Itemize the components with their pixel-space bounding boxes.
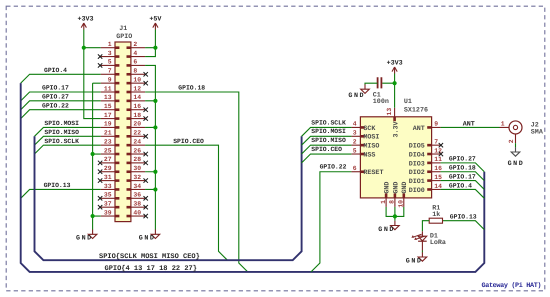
wire +3V3 to U1 pin13 and C1 (382, 74, 394, 108)
wire net GPIO.27 from U1 DIO to GPIO bus (441, 163, 485, 172)
power symbol +3V3 (U1) (392, 67, 397, 74)
svg-text:20: 20 (133, 121, 141, 128)
J1 pin 30 (131, 171, 145, 173)
svg-text:+3V3: +3V3 (387, 59, 403, 67)
svg-text:GPIO.17: GPIO.17 (449, 173, 476, 180)
U1 pin 15 DIO1 (432, 180, 441, 182)
svg-text:GPIO.4: GPIO.4 (449, 182, 472, 189)
U1 pin 3 MOSI (351, 135, 360, 137)
J1 pin 35 (101, 197, 115, 199)
wire D1 cathode to ground (421, 251, 423, 253)
svg-text:GPIO.22: GPIO.22 (320, 163, 347, 170)
svg-text:2: 2 (353, 138, 357, 145)
svg-text:2: 2 (508, 139, 515, 143)
J1 pin 17 (101, 118, 115, 120)
svg-text:Gateway (Pi HAT): Gateway (Pi HAT) (482, 282, 542, 290)
J1 pin 10 (131, 82, 145, 84)
svg-text:3: 3 (353, 130, 357, 137)
J1 pin 24 (131, 144, 145, 146)
J1 pin 11 (101, 91, 115, 93)
svg-text:SCK: SCK (363, 125, 376, 133)
svg-text:27: 27 (104, 156, 112, 163)
svg-text:10: 10 (398, 200, 405, 208)
J2 pin 1 stub (500, 126, 510, 128)
svg-text:5: 5 (353, 147, 357, 154)
wire net SPIO.CEO from J1 pin24 to SPI bus (145, 145, 227, 260)
svg-text:GND: GND (348, 92, 365, 100)
svg-text:3.3V: 3.3V (393, 121, 401, 137)
J1 pin 19 (101, 126, 115, 128)
bus GPIO (navy) (21, 83, 485, 272)
svg-text:GND: GND (406, 257, 423, 265)
wire net GPIO.27 from J1 to bus (21, 101, 101, 110)
svg-text:GPIO{4 13 17 18 22 27}: GPIO{4 13 17 18 22 27} (105, 264, 197, 273)
J1 pin 39 (101, 215, 115, 217)
svg-text:GPIO.27: GPIO.27 (449, 156, 476, 163)
no-connect X on U1 DIO5 (439, 143, 443, 147)
svg-text:14: 14 (434, 183, 442, 190)
svg-text:25: 25 (104, 147, 112, 154)
svg-text:39: 39 (104, 209, 112, 216)
J1 pin 13 (101, 100, 115, 102)
wire net SPIO.CEO from SPI bus to U1 (302, 154, 352, 163)
J2 pin 2 stub (515, 134, 517, 143)
power symbol +3V3 (left) (81, 23, 86, 30)
svg-text:U1: U1 (404, 98, 412, 106)
svg-text:SPIO.MISO: SPIO.MISO (44, 129, 79, 136)
svg-text:32: 32 (133, 174, 141, 181)
J1 pin 27 (101, 162, 115, 164)
U1 pin 11 DIO3 (432, 162, 441, 164)
ground GND (below U1) (394, 221, 396, 226)
ground GND (below J1 left) (92, 230, 94, 235)
svg-text:1k: 1k (432, 211, 440, 219)
svg-text:GND: GND (76, 235, 93, 243)
J1 pin 14 (131, 100, 145, 102)
wire net SPIO.SCLK from SPI bus to U1 (302, 127, 352, 136)
U1 pin 4 SCK (351, 126, 360, 128)
J1 pin 21 (101, 135, 115, 137)
wire U1 GND pins join (386, 207, 404, 221)
wire net SPIO.MOSI from J1 to bus (35, 127, 101, 136)
svg-text:9: 9 (434, 121, 438, 128)
svg-text:3: 3 (108, 50, 112, 57)
svg-text:NSS: NSS (363, 151, 375, 159)
svg-text:1: 1 (380, 200, 387, 204)
svg-text:13: 13 (386, 108, 393, 116)
svg-text:31: 31 (104, 174, 112, 181)
svg-text:15: 15 (434, 174, 442, 181)
svg-text:GND: GND (508, 160, 525, 168)
J1 pin 16 (131, 109, 145, 111)
svg-text:DIO3: DIO3 (409, 160, 425, 168)
svg-text:8: 8 (389, 200, 396, 204)
J1 pin 29 (101, 171, 115, 173)
svg-text:+5V: +5V (149, 15, 161, 23)
svg-text:8: 8 (133, 68, 137, 75)
junction GND right at pin14 (153, 99, 157, 103)
junction +3V3/C1 (393, 81, 397, 85)
U1 pin 8 GND (bottom) (394, 198, 396, 207)
junction GND left at pin39 (91, 214, 95, 218)
J1 pin 4 (131, 56, 145, 58)
svg-text:12: 12 (133, 85, 141, 92)
svg-text:28: 28 (133, 156, 141, 163)
svg-text:16: 16 (434, 165, 442, 172)
J1 pin 1 (101, 47, 115, 49)
J1 pin 26 (131, 153, 145, 155)
svg-text:SPIO.SCLK: SPIO.SCLK (311, 119, 346, 126)
svg-text:6: 6 (133, 59, 137, 66)
J1 pin 6 (131, 64, 145, 66)
svg-text:GPIO.13: GPIO.13 (450, 214, 477, 221)
svg-text:9: 9 (108, 76, 112, 83)
svg-text:DIO1: DIO1 (409, 178, 425, 186)
wire net GPIO.22 from J1 to bus (21, 110, 101, 119)
no-connect X on U1 DIO4 (439, 152, 443, 156)
capacitor C1 (378, 77, 382, 88)
J1 pin 37 (101, 206, 115, 208)
svg-text:SPIO{SCLK MOSI MISO CEO}: SPIO{SCLK MOSI MISO CEO} (99, 252, 200, 261)
J1 pin 34 (131, 188, 145, 190)
svg-text:MOSI: MOSI (363, 134, 379, 142)
J1 pin 2 (131, 47, 145, 49)
svg-text:DIO0: DIO0 (409, 187, 425, 195)
wire net SPIO.MISO from SPI bus to U1 (302, 145, 352, 154)
svg-text:7: 7 (434, 138, 438, 145)
J1 pin 15 (101, 109, 115, 111)
J1 pin 3 (101, 56, 115, 58)
svg-text:18: 18 (133, 112, 141, 119)
J1 pin 7 (101, 73, 115, 75)
svg-text:4: 4 (353, 121, 357, 128)
svg-text:22: 22 (133, 130, 141, 137)
J1 pin 23 (101, 144, 115, 146)
ground GND (below D1) (421, 252, 423, 257)
wire net ANT from U1 to J2 (441, 126, 500, 128)
svg-text:100n: 100n (373, 98, 389, 106)
wire net GPIO.4 from J1 to bus (21, 74, 101, 83)
U1 pin 2 MISO (351, 144, 360, 146)
junction GND left at pin25 (91, 152, 95, 156)
J1 pin 36 (131, 197, 145, 199)
svg-text:6: 6 (353, 165, 357, 172)
svg-text:DIO2: DIO2 (409, 169, 425, 177)
svg-text:GPIO: GPIO (116, 33, 132, 41)
svg-text:29: 29 (104, 165, 112, 172)
resistor R1 (429, 218, 442, 223)
J1 pin 38 (131, 206, 145, 208)
svg-text:14: 14 (133, 94, 141, 101)
wire net GPIO.4 from U1 DIO to GPIO bus (441, 189, 485, 198)
J1 pin 20 (131, 126, 145, 128)
junction GND right at pin34 (153, 187, 157, 191)
svg-text:GPIO.13: GPIO.13 (44, 182, 71, 189)
svg-text:LoRa: LoRa (430, 239, 446, 247)
svg-text:GPIO.18: GPIO.18 (449, 165, 476, 172)
svg-text:GND: GND (139, 235, 156, 243)
svg-text:GPIO.18: GPIO.18 (178, 85, 205, 92)
wire net GPIO.17 from J1 to bus (21, 92, 101, 101)
svg-text:17: 17 (104, 112, 112, 119)
connector J1 body (115, 42, 131, 222)
J1 pin 32 (131, 180, 145, 182)
wire net GPIO.13 from J1 to bus (21, 189, 101, 198)
svg-text:33: 33 (104, 183, 112, 190)
wire GND left riser (pins 9,25,39) (93, 83, 101, 229)
U1 pin 10 GND (bottom) (403, 198, 405, 207)
junction GND right at pin30 (153, 170, 157, 174)
wire J2 pin2 to ground (515, 143, 517, 147)
svg-text:SPIO.MOSI: SPIO.MOSI (44, 120, 79, 127)
wire net SPIO.SCLK from J1 to bus (35, 145, 101, 154)
svg-text:11: 11 (104, 85, 112, 92)
junction +5V at pin2 (153, 46, 157, 50)
U1 pin 9 ANT (432, 126, 441, 128)
svg-text:GPIO.4: GPIO.4 (44, 67, 67, 74)
wire net GPIO.17 from U1 DIO to GPIO bus (441, 181, 485, 190)
U1 pin 6 RESET (351, 171, 360, 173)
J1 pin 25 (101, 153, 115, 155)
svg-text:23: 23 (104, 138, 112, 145)
svg-text:ANT: ANT (463, 120, 475, 128)
svg-text:5: 5 (108, 59, 112, 66)
svg-text:GND: GND (392, 182, 400, 194)
svg-text:2: 2 (133, 41, 137, 48)
J1 pin 22 (131, 135, 145, 137)
J1 pin 40 (131, 215, 145, 217)
wire net GPIO.18 from U1 DIO to GPIO bus (441, 172, 485, 181)
svg-text:SX1276: SX1276 (404, 107, 428, 115)
wire net SPIO.MISO from J1 to bus (35, 136, 101, 145)
svg-text:1: 1 (108, 41, 112, 48)
wire net GPIO.13 from R1 to GPIO bus (443, 221, 485, 230)
junction GND right at pin20 (153, 125, 157, 129)
svg-text:24: 24 (133, 138, 141, 145)
svg-text:SPIO.CEO: SPIO.CEO (311, 146, 342, 153)
svg-text:SPIO.CEO: SPIO.CEO (173, 138, 204, 145)
LED D1 (421, 231, 423, 236)
svg-text:19: 19 (104, 121, 112, 128)
svg-text:GPIO.22: GPIO.22 (42, 102, 69, 109)
junction +3V3 at pin1 (82, 46, 86, 50)
svg-text:37: 37 (104, 200, 112, 207)
power symbol +5V (153, 23, 158, 30)
U1 pin 7 DIO5 (432, 144, 441, 146)
svg-text:ANT: ANT (413, 125, 425, 133)
svg-text:SPIO.SCLK: SPIO.SCLK (44, 138, 79, 145)
wire +5V to J1 pin2/pin4 (145, 30, 155, 57)
J1 pin 9 (101, 82, 115, 84)
svg-text:21: 21 (104, 130, 112, 137)
svg-text:GPIO.17: GPIO.17 (42, 85, 69, 92)
wire net SPIO.MOSI from SPI bus to U1 (302, 136, 352, 145)
svg-text:GPIO.27: GPIO.27 (42, 94, 69, 101)
svg-text:4: 4 (133, 50, 137, 57)
J1 pin 33 (101, 188, 115, 190)
svg-text:+3V3: +3V3 (77, 15, 93, 23)
svg-text:13: 13 (104, 94, 112, 101)
U1 pin 12 DIO4 (432, 153, 441, 155)
J1 pin 12 (131, 91, 145, 93)
ground GND (at C1) (364, 84, 366, 89)
svg-text:DIO4: DIO4 (409, 151, 425, 159)
svg-text:1: 1 (501, 120, 505, 127)
svg-text:35: 35 (104, 192, 112, 199)
connector J2 SMA (509, 121, 522, 134)
U1 pin 1 GND (bottom) (385, 198, 387, 207)
svg-text:DIO5: DIO5 (409, 143, 425, 151)
svg-text:RESET: RESET (363, 169, 383, 177)
wire net GPIO.18 from J1 pin12 to GPIO bus (145, 92, 248, 272)
svg-text:36: 36 (133, 192, 141, 199)
wire R1 to D1 (422, 221, 429, 232)
J1 pin 31 (101, 180, 115, 182)
svg-text:7: 7 (108, 68, 112, 75)
bus SPI0 (navy) (35, 136, 302, 260)
svg-text:GND: GND (378, 226, 395, 234)
svg-text:16: 16 (133, 103, 141, 110)
J1 pin 28 (131, 162, 145, 164)
U1 pin 13 3.3V (top) (394, 108, 396, 117)
svg-text:30: 30 (133, 165, 141, 172)
svg-text:11: 11 (434, 156, 442, 163)
svg-text:15: 15 (104, 103, 112, 110)
J1 pin 5 (101, 64, 115, 66)
svg-text:GND: GND (384, 182, 392, 194)
J1 pin 8 (131, 73, 145, 75)
svg-text:SPIO.MOSI: SPIO.MOSI (311, 128, 346, 135)
junction U1 GND (393, 214, 397, 218)
svg-text:40: 40 (133, 209, 141, 216)
U1 pin 16 DIO2 (432, 171, 441, 173)
U1 pin 5 NSS (351, 153, 360, 155)
U1 pin 14 DIO0 (432, 188, 441, 190)
wire +3V3 riser to J1 pin1/pin17 (84, 30, 101, 119)
ground GND (below J1 right) (154, 230, 156, 235)
ground GND (at J2) (515, 147, 517, 152)
svg-text:MISO: MISO (363, 143, 379, 151)
svg-text:SMA: SMA (531, 128, 544, 136)
J1 pin 18 (131, 118, 145, 120)
svg-text:SPIO.MISO: SPIO.MISO (311, 137, 346, 144)
svg-text:10: 10 (133, 76, 141, 83)
wire GND right riser (pins 6,14,20,30,34) (145, 65, 155, 229)
svg-text:34: 34 (133, 183, 141, 190)
wire net GPIO.22 from GPIO bus to U1 RESET (311, 172, 351, 272)
svg-text:26: 26 (133, 147, 141, 154)
svg-text:GND: GND (401, 182, 409, 194)
svg-text:38: 38 (133, 200, 141, 207)
IC U1 body (360, 117, 431, 198)
